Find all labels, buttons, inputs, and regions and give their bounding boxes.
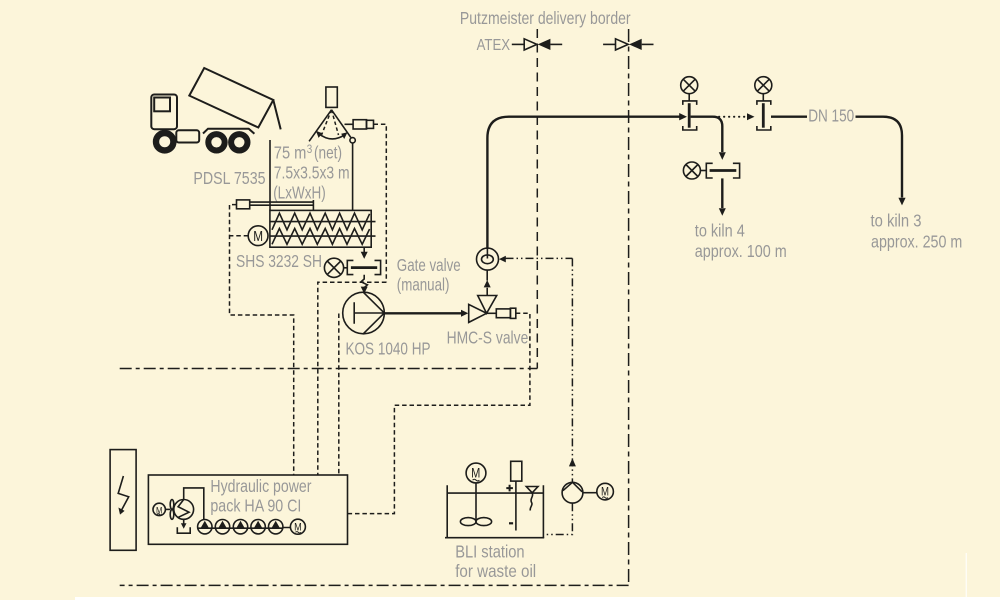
arrow: into HMC-S valve <box>461 310 468 317</box>
svg-text:75 m: 75 m <box>274 143 307 163</box>
coupling 1 bracket top <box>683 101 697 105</box>
kiln 4 valve bracket right <box>733 163 740 178</box>
truck cab <box>151 95 177 130</box>
pipe: riser from diverter to delivery line <box>487 117 680 248</box>
svg-text:PDSL 7535: PDSL 7535 <box>193 168 265 188</box>
kiln 4 valve gate bar <box>710 169 737 172</box>
level probe head <box>511 461 522 481</box>
wire: screw motor control dashed line <box>230 205 294 475</box>
gate valve bracket right <box>375 260 381 274</box>
bottom boundary dash-dot line <box>120 584 629 586</box>
distributor arm right <box>332 110 351 138</box>
svg-text:Hydraulic power: Hydraulic power <box>210 476 311 496</box>
svg-text:(manual): (manual) <box>397 275 450 295</box>
level probe minus mark <box>509 522 513 524</box>
pipe: kiln 4 valve outlet <box>721 178 723 208</box>
coupling 2 vent valve <box>755 77 772 94</box>
HMC-S actuator cap <box>510 308 515 318</box>
gate valve indicator link <box>344 267 348 269</box>
arrow: branch down to kiln 4 valve <box>719 152 726 160</box>
middle boundary dash-dot line <box>120 368 538 370</box>
truck open tailgate <box>273 100 280 129</box>
waste oil pump motor M <box>597 483 614 500</box>
svg-text:to kiln 3: to kiln 3 <box>871 211 922 231</box>
fan blades <box>170 500 174 510</box>
KOS pump body <box>343 292 385 334</box>
coupling 1 vent stem <box>688 94 690 101</box>
coupling 2 bracket bottom <box>757 126 771 130</box>
silo wall right <box>352 143 354 210</box>
truck cab window <box>154 98 170 112</box>
svg-text:M: M <box>471 465 480 480</box>
wire: waste oil line horizontal <box>506 257 573 259</box>
svg-text:Gate valve: Gate valve <box>397 255 461 275</box>
arrow: into KOS pump <box>361 287 368 294</box>
ATEX symbol 2 filled triangle <box>629 39 642 50</box>
fan motor M <box>153 503 165 515</box>
delivery border line 1 <box>536 29 538 369</box>
waste oil pump vanes <box>563 482 582 492</box>
screw spiral bottom <box>272 229 370 245</box>
gate valve slide bar <box>351 266 377 269</box>
power pack enclosure <box>148 475 347 544</box>
coupling 2 bracket top <box>757 101 771 105</box>
svg-text:approx. 250 m: approx. 250 m <box>871 231 962 251</box>
ATEX symbol 2 left line <box>603 43 615 45</box>
arrow: flow up into diverter <box>484 280 491 287</box>
svg-text:for waste oil: for waste oil <box>455 561 536 581</box>
gate slide plate <box>312 200 314 210</box>
coupling 2 gate bar <box>762 103 765 128</box>
HMC-S valve inlet cone <box>469 304 487 322</box>
svg-text:approx. 100 m: approx. 100 m <box>695 241 787 261</box>
gate slide cylinder rod <box>250 202 314 205</box>
arrow: dotted line into coupling 2 <box>747 113 755 120</box>
arrow: waste oil flow up <box>569 458 576 466</box>
arrow: waste oil into diverter <box>499 256 506 263</box>
svg-text:(LxWxH): (LxWxH) <box>273 182 326 202</box>
agitator shaft <box>475 483 477 522</box>
svg-text:BLI station: BLI station <box>455 541 524 561</box>
svg-text:ATEX: ATEX <box>477 37 511 54</box>
screw conveyor housing <box>270 210 371 247</box>
HMC-S actuator link <box>487 312 497 314</box>
hydraulic pump 3 <box>236 521 245 529</box>
hydraulic pump 5 <box>271 521 280 529</box>
pipe: DN 150 run to kiln 3 <box>856 117 903 198</box>
oil cooler coil <box>178 500 189 518</box>
ATEX symbol 2 right line <box>642 43 654 45</box>
arrow: bolt tip <box>118 508 124 515</box>
diverter rotor <box>482 255 494 264</box>
agitator motor M <box>466 463 486 483</box>
distributor cylinder cap <box>367 120 374 128</box>
truck tipped bed <box>189 68 273 128</box>
gate slide cylinder cap <box>237 200 250 209</box>
arrow: swing arc right end <box>341 132 347 139</box>
truck rear wheel 2 <box>231 134 247 150</box>
pump row base line <box>198 527 291 530</box>
hydraulic pump 4 <box>254 521 263 529</box>
silo wall left <box>269 140 271 210</box>
distributor arm left <box>309 110 331 142</box>
wire: gate slide cylinder dashed line <box>374 124 387 282</box>
arrow: pipe into coupling 1 <box>679 113 687 120</box>
gate valve bracket left <box>347 260 353 274</box>
kiln 4 valve indicator <box>683 162 700 179</box>
KOS pump S-tube symbol <box>354 292 384 333</box>
svg-text:DN 150: DN 150 <box>808 106 854 126</box>
wire: dotted line between couplings <box>714 116 748 118</box>
pipe: coupling 1 to branch <box>691 117 723 152</box>
wire: KOS pump control dashed line <box>338 314 340 476</box>
svg-text:M: M <box>253 229 263 245</box>
svg-text:HMC-S valve: HMC-S valve <box>447 328 529 348</box>
wire: gate valve control dashed line <box>318 282 387 475</box>
truck front wheel <box>156 133 173 150</box>
svg-text:Putzmeister delivery border: Putzmeister delivery border <box>460 8 631 28</box>
ATEX symbol 1 filled triangle <box>538 39 551 50</box>
arrow: swing arc left end <box>316 131 322 138</box>
coupling 2 vent stem <box>762 94 764 101</box>
waste oil pump body <box>562 482 583 503</box>
ATEX symbol 1 left line <box>512 43 524 45</box>
hydraulic pump 2 <box>218 521 227 529</box>
kiln 4 valve indicator link <box>700 170 706 172</box>
level probe rod <box>515 481 517 530</box>
ATEX symbol 1 right line <box>550 43 562 45</box>
diverter stem <box>486 248 488 258</box>
kiln 4 valve bracket left <box>706 163 712 178</box>
electric supply bolt <box>118 476 129 510</box>
BLI tank rim <box>447 492 543 494</box>
level probe plus mark <box>506 485 513 492</box>
HMC-S valve upper cone <box>478 296 497 314</box>
screw motor M <box>248 226 268 246</box>
arrow: outlet into gate valve <box>361 252 368 259</box>
oil cooler <box>174 500 194 520</box>
svg-text:KOS 1040 HP: KOS 1040 HP <box>346 339 431 359</box>
agitator propeller <box>460 518 476 526</box>
ATEX symbol 1 open triangle <box>524 39 537 50</box>
arrow: down to kiln 3 <box>898 198 905 206</box>
truck chassis <box>203 129 254 134</box>
pipe: screw conveyor outlet <box>363 247 365 252</box>
wire: waste oil pump suction <box>544 503 573 534</box>
level indicator squiggle <box>530 493 532 511</box>
svg-text:pack HA 90 CI: pack HA 90 CI <box>210 496 301 516</box>
distributor cylinder link line <box>345 123 354 125</box>
hydraulic pump 1 <box>201 521 210 529</box>
distributor swing arc <box>319 134 345 139</box>
distributor head box <box>326 87 337 107</box>
level indicator funnel <box>526 487 538 493</box>
pump drive motor M <box>290 519 305 534</box>
coupling 1 gate bar <box>688 103 691 128</box>
distributor swing arc dashed arms <box>322 110 339 135</box>
svg-text:(net): (net) <box>314 143 342 163</box>
distributor pivot circle <box>350 138 355 143</box>
pipe: KOS pump outlet <box>384 312 461 314</box>
coupling 1 bracket bottom <box>683 126 697 130</box>
HMC-S actuator body <box>496 309 510 318</box>
waste oil pump motor link <box>583 492 597 494</box>
coupling 1 vent valve <box>681 77 698 94</box>
wire: waste oil line vertical <box>571 258 573 482</box>
pipe: coupling 2 exit <box>771 115 807 117</box>
svg-text:7.5x3.5x3 m: 7.5x3.5x3 m <box>274 163 350 183</box>
truck rear wheel 1 <box>208 134 224 150</box>
bottom white page edge <box>75 597 1000 600</box>
wire: motor M to control line <box>230 235 249 237</box>
screw shaft axis top <box>270 221 376 223</box>
BLI tank bottom <box>445 537 544 539</box>
arrow: drain down <box>181 523 187 529</box>
drain pan <box>177 527 190 533</box>
screw spiral top <box>272 213 370 230</box>
svg-text:3: 3 <box>307 144 313 156</box>
truck fuel tank <box>176 130 199 142</box>
cooler circuit line <box>184 488 204 520</box>
cooler drain line <box>183 519 185 524</box>
svg-text:to kiln 4: to kiln 4 <box>695 220 745 240</box>
wire: HMC-S actuator control dashed line <box>348 313 530 513</box>
screw shaft axis bottom <box>270 235 376 237</box>
pipe: HMC-S up to diverter <box>486 270 488 295</box>
svg-text:SHS 3232 SH: SHS 3232 SH <box>236 251 322 271</box>
pipe: gate valve to pump flexible hose <box>361 275 367 288</box>
svg-text:M: M <box>601 486 609 498</box>
electric supply box <box>110 450 136 551</box>
delivery border line 2 <box>628 29 630 585</box>
gate valve local indicator <box>324 258 343 277</box>
distributor cylinder body <box>353 120 366 129</box>
arrow: down to kiln 4 <box>719 208 726 216</box>
BLI tank walls <box>447 485 543 538</box>
ATEX symbol 2 open triangle <box>616 39 629 50</box>
diverter body <box>477 248 499 270</box>
fan motor link <box>165 508 170 510</box>
